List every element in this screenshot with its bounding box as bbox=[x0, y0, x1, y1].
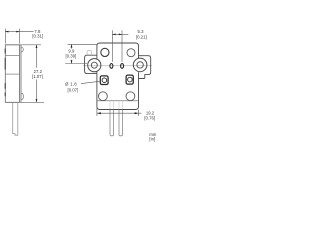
svg-text:Ø 1.8: Ø 1.8 bbox=[65, 81, 77, 86]
side view top bump on flange bbox=[21, 47, 23, 52]
dim 5.3 extension lines bbox=[112, 30, 122, 62]
front view right square hole bbox=[128, 77, 133, 82]
side view top edge + extension to 27.2 dim bbox=[5, 44, 41, 46]
dim 27.2 arrows bbox=[36, 45, 38, 48]
front view body outline bbox=[97, 43, 139, 110]
front view left pin slot bbox=[110, 64, 113, 69]
front view top-left circle bbox=[101, 48, 109, 56]
svg-text:5.3: 5.3 bbox=[138, 29, 145, 34]
dim 9.9 dimension line bbox=[71, 44, 73, 48]
front view left ear bbox=[85, 55, 97, 73]
front view pin stubs inside body bbox=[110, 101, 122, 109]
side view bottom bump on flange bbox=[21, 93, 24, 100]
front view left square hole (1.8 dia) bbox=[102, 78, 107, 83]
leader line for 1.8 dia hole bbox=[81, 81, 101, 83]
svg-text:[1.07]: [1.07] bbox=[32, 74, 43, 79]
front view tab above left ear bbox=[87, 51, 91, 56]
front view left mounting boss outer circle bbox=[88, 59, 101, 72]
dim 19.2 dimension line bbox=[97, 112, 141, 114]
front view left square boss bbox=[100, 76, 108, 85]
svg-text:[0.07]: [0.07] bbox=[68, 88, 79, 93]
svg-text:[0.21]: [0.21] bbox=[136, 35, 147, 40]
front view right mounting boss outer circle bbox=[133, 58, 147, 72]
side view bottom edge + extension to 27.2 dim bbox=[5, 101, 44, 103]
front view left mounting hole bbox=[91, 62, 97, 68]
dim 5.3 dimension line bbox=[112, 33, 128, 35]
dim 7.8 extension lines bbox=[5, 29, 19, 44]
side view stem (pin edge-on) bbox=[13, 102, 18, 135]
svg-text:[0.31]: [0.31] bbox=[32, 34, 43, 39]
side view black contact marks on left edge bbox=[4, 49, 6, 97]
front view right pin slot bbox=[121, 64, 124, 69]
front view horizontal centerline bbox=[83, 65, 152, 67]
front view right ear bbox=[139, 56, 151, 79]
side view body outline bbox=[5, 45, 21, 103]
dim 7.8 dimension line bbox=[5, 31, 33, 33]
front view right mounting hole bbox=[137, 62, 143, 68]
svg-text:[in]: [in] bbox=[149, 137, 155, 142]
svg-text:[0.39]: [0.39] bbox=[66, 53, 77, 58]
front view left pin bbox=[110, 110, 114, 136]
dim 7.8 arrows bbox=[5, 31, 8, 33]
svg-text:[0.76]: [0.76] bbox=[144, 116, 155, 121]
dim 19.2 left extension line bbox=[96, 108, 98, 117]
side view internal line lower bbox=[5, 73, 19, 75]
side view internal line upper bbox=[5, 55, 19, 57]
dim 19.2 right extension line bbox=[138, 110, 140, 116]
dim 9.9 top extension line bbox=[68, 43, 98, 45]
dim 9.9 arrows bbox=[71, 44, 73, 47]
front view top-right circle bbox=[127, 49, 135, 57]
dim 19.2 arrows bbox=[97, 112, 101, 114]
front view bottom-right boss circle bbox=[126, 92, 135, 101]
dim 9.9 bottom extension line bbox=[65, 63, 87, 65]
front view right square boss bbox=[126, 75, 133, 84]
dim 5.3 arrows bbox=[112, 34, 115, 36]
dim 27.2 dimension line bbox=[36, 45, 38, 103]
front view right pin bbox=[119, 110, 123, 136]
front view bottom-left boss circle bbox=[99, 92, 108, 101]
front view internal line above pin area bbox=[97, 100, 138, 102]
